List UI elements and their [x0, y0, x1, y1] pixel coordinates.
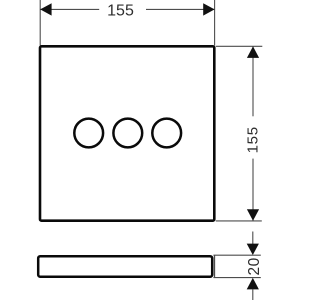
extension line right (top dimension) — [214, 0, 216, 46]
leader tail above (20 dimension) — [252, 232, 254, 245]
arrowhead right (top dimension) — [203, 3, 214, 15]
extension line bottom (right 155 dimension) — [216, 220, 262, 222]
svg-text:20: 20 — [246, 257, 263, 275]
plate side view body — [38, 256, 212, 277]
side view right end thin edge — [214, 255, 216, 277]
dimension line 155 right, lower segment — [252, 159, 254, 221]
arrowhead up (20 dimension) — [247, 278, 259, 290]
extension line left (top dimension) — [39, 0, 41, 46]
extension line bottom (20 dimension) — [213, 277, 260, 279]
arrowhead down (20 dimension) — [247, 244, 259, 255]
arrowhead up (right dimension) — [247, 46, 259, 58]
svg-text:155: 155 — [245, 126, 262, 153]
dimension line 155 top, right segment — [146, 8, 215, 10]
arrowhead down (right dimension) — [247, 209, 259, 221]
button circle 1 — [74, 119, 103, 148]
leader tail below (20 dimension) — [252, 289, 254, 300]
button circle 2 — [113, 119, 142, 148]
svg-text:155: 155 — [107, 2, 134, 19]
dimension line 155 top, left segment — [40, 8, 99, 10]
plate front view outline — [40, 46, 214, 220]
dimension line 155 right, upper segment — [252, 46, 254, 116]
extension line top (20 dimension) — [213, 254, 260, 256]
extension line top (right 155 dimension) — [216, 45, 262, 47]
button circle 3 — [152, 119, 181, 148]
arrowhead left (top dimension) — [40, 3, 51, 15]
